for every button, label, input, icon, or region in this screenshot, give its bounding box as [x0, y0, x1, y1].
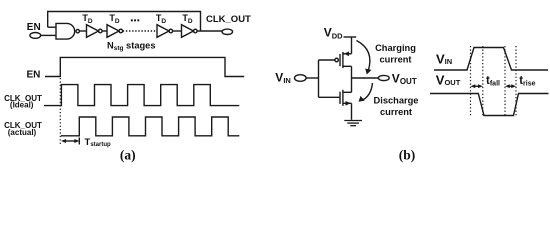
svg-text:VIN: VIN [436, 52, 452, 67]
svg-text:trise: trise [519, 75, 535, 87]
svg-text:VDD: VDD [324, 26, 343, 41]
svg-text:(actual): (actual) [8, 128, 37, 137]
svg-text:Nstg stages: Nstg stages [107, 41, 156, 53]
svg-text:(b): (b) [399, 147, 416, 162]
svg-text:(Ideal): (Ideal) [10, 101, 34, 110]
svg-text:Tstartup: Tstartup [85, 137, 111, 148]
svg-text:VOUT: VOUT [436, 72, 461, 87]
svg-text:TD: TD [82, 13, 93, 25]
svg-text:TD: TD [182, 13, 193, 25]
svg-text:CLK_OUT: CLK_OUT [206, 14, 251, 25]
svg-text:current: current [380, 107, 412, 117]
svg-text:EN: EN [27, 70, 41, 81]
svg-text:tfall: tfall [486, 75, 500, 87]
svg-text:TD: TD [156, 13, 167, 25]
svg-text:EN: EN [27, 22, 41, 33]
svg-text:(a): (a) [120, 147, 136, 162]
svg-text:current: current [379, 55, 411, 65]
svg-text:TD: TD [109, 13, 120, 25]
svg-text:VIN: VIN [275, 71, 291, 85]
svg-text:Charging: Charging [375, 43, 416, 53]
svg-text:Discharge: Discharge [374, 95, 419, 105]
svg-text:VOUT: VOUT [392, 72, 417, 86]
